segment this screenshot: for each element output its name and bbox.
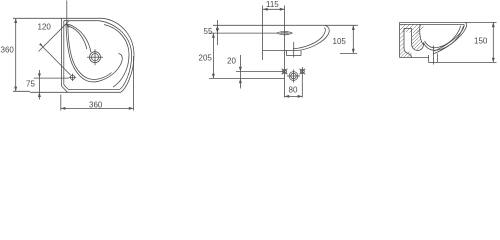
drain hole inner circle	[91, 54, 98, 61]
bowl upper-right edge outer	[66, 24, 91, 53]
dim line 360 bottom horizontal	[61, 107, 134, 109]
dim 150 vertical line	[492, 22, 494, 62]
right edge sweep inner	[434, 24, 464, 51]
drain crosshair horizontal	[87, 56, 103, 58]
hatch left band	[400, 31, 412, 58]
arrow 55 bottom	[216, 28, 219, 33]
basin bottom edge	[263, 49, 299, 51]
svg-text:55: 55	[204, 27, 213, 36]
arrow 75 bottom (external, pointing up)	[38, 92, 41, 97]
wire top edge of basin with left extension	[13, 17, 103, 19]
mounting hole crosshair horizontal	[69, 76, 76, 78]
drain boss right	[437, 54, 439, 63]
svg-text:120: 120	[38, 23, 52, 32]
drain crosshair vertical (bottom view)	[293, 70, 295, 83]
left edge	[399, 22, 401, 57]
extension line top for 150	[465, 21, 497, 23]
wire inner rim offset left	[63, 21, 65, 85]
cavity left boundary (left wall inner)	[404, 28, 412, 57]
dim 55 vertical line	[216, 20, 218, 45]
arrow 80 right	[298, 95, 303, 98]
drain circle outer (bottom view)	[289, 72, 298, 81]
arrow 360-bottom right	[129, 107, 134, 110]
basin front curve inner	[293, 28, 325, 49]
arrow 80 left	[285, 95, 290, 98]
svg-text:115: 115	[266, 0, 279, 9]
wire inner rim chamfer	[64, 85, 69, 90]
fixing axis line (to 20 dim)	[236, 71, 285, 73]
bowl left edge and bottom sweep outer	[66, 24, 122, 82]
dim line 120 diagonal	[39, 21, 69, 51]
svg-text:360: 360	[89, 101, 103, 110]
svg-text:360: 360	[1, 46, 15, 55]
wire bottom edge of basin	[30, 91, 121, 93]
dim 75 vertical line	[38, 70, 40, 100]
arrow 205 bottom	[212, 74, 215, 79]
bottom edge	[400, 57, 430, 59]
wire inner rim offset top	[64, 20, 99, 22]
dim line 360 left vertical	[15, 18, 17, 91]
deck underside over cavity	[404, 27, 412, 29]
arrow 115 left	[263, 8, 268, 11]
svg-text:80: 80	[289, 86, 298, 95]
drain circle inner (bottom view)	[291, 73, 296, 78]
dim 105 top extension handled by top edge; bottom extension line	[340, 52, 357, 54]
wall vertical line	[262, 6, 264, 61]
basin top edge with extensions both sides	[213, 24, 358, 26]
arrow 55 top	[216, 25, 219, 30]
wire inner rim arc 1	[99, 21, 132, 90]
basin front curve outer	[298, 25, 329, 50]
arrow 150 bottom	[492, 58, 495, 63]
top edge outer	[400, 21, 466, 23]
bowl left edge inner line	[68, 25, 112, 80]
drain boss centerline	[432, 46, 434, 65]
mounting hole circle	[70, 75, 74, 79]
long vertical line through overflow/fixing hole	[284, 6, 286, 98]
drain boss step left	[286, 50, 288, 56]
svg-text:150: 150	[474, 37, 488, 46]
wire inner rim arc 2	[104, 25, 129, 88]
extension line right for bottom 360	[133, 56, 135, 111]
svg-text:20: 20	[227, 57, 236, 66]
bowl hook outer boundary	[412, 28, 424, 50]
bowl hook inner boundary (bowl left wall)	[420, 24, 424, 44]
arrow 105 bottom	[352, 49, 355, 54]
extension line bottom for 150	[438, 61, 497, 63]
arrow 150 top	[492, 22, 495, 27]
extension line left for bottom 360	[60, 95, 62, 111]
wire outer front arc	[103, 18, 134, 92]
drain boss bottom	[429, 61, 438, 63]
bowl upper-right edge inner	[67, 26, 87, 49]
dim 20 vertical line	[239, 55, 241, 89]
svg-text:75: 75	[26, 80, 35, 89]
arrow 205 top	[212, 33, 215, 38]
arrow 20 bottom (external, pointing up)	[239, 78, 242, 83]
arrow 75 top (external, pointing down)	[38, 73, 41, 78]
arrow 105 top	[352, 25, 355, 30]
dim 105 vertical line	[352, 25, 354, 53]
drain crosshair vertical	[94, 49, 96, 65]
overflow axis line from 55 dim	[209, 32, 277, 34]
arrow 120 top	[66, 24, 70, 28]
dim 80 horizontal line	[285, 95, 303, 97]
extension line bottom-left for 360	[13, 90, 30, 92]
arrow 120 bottom	[39, 43, 43, 47]
arrow 115 right	[280, 8, 285, 11]
left fixing hole marker circle	[283, 70, 287, 74]
vertical extension line above bowl tip	[66, 1, 68, 25]
extension line 45deg to mounting hole	[40, 44, 71, 75]
mounting hole crosshair vertical	[72, 74, 74, 81]
drain boss step bottom	[287, 55, 302, 57]
wire bottom-left chamfer	[62, 86, 68, 92]
drain centerline upper	[293, 42, 295, 58]
hatch bowl hook	[412, 30, 424, 51]
dim 205 vertical line	[212, 33, 214, 78]
bowl interior bottom curve outer	[424, 26, 464, 50]
right fixing hole marker circle	[300, 70, 304, 74]
right fixing hole diagonal cross	[300, 69, 306, 75]
arrow 360-bottom left	[61, 107, 66, 110]
dim 115 horizontal line	[263, 8, 285, 10]
left fixing hole diagonal cross	[282, 69, 288, 75]
overflow oval inner	[280, 32, 289, 34]
wire left edge of basin	[61, 18, 63, 86]
dim 75: upper reference line	[34, 77, 69, 79]
svg-text:205: 205	[199, 54, 213, 63]
drain hole outer circle	[90, 52, 101, 63]
drain boss step right	[300, 51, 302, 56]
right vertical extension for 80	[301, 67, 303, 98]
overflow oval outer	[277, 31, 293, 35]
hatch deck strip	[400, 24, 424, 33]
arrow 360-left bottom	[14, 87, 17, 92]
drain boss left	[428, 55, 430, 62]
arrow 360-left top	[14, 18, 17, 23]
top edge inner	[400, 23, 465, 25]
svg-text:105: 105	[333, 37, 347, 46]
bowl interior bottom curve inner	[425, 26, 461, 48]
right edge sweep outer	[434, 22, 467, 53]
drain crosshair horizontal (bottom view)	[287, 75, 300, 77]
drain axis line (to 205/20 dims)	[209, 77, 285, 79]
arrow 20 top (external, pointing down)	[239, 67, 242, 72]
wire inner rim bottom	[69, 89, 120, 91]
